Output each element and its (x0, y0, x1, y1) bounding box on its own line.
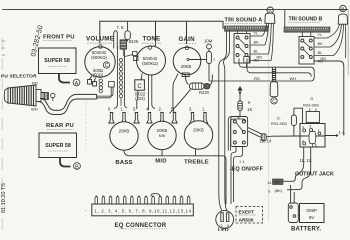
svg-text:(500KΩ): (500KΩ) (91, 55, 107, 60)
svg-text:822K: 822K (129, 39, 139, 44)
connector strip A (225, 26, 269, 31)
wire mid wiper tap (161, 150, 163, 156)
faint fold line (85, 101, 87, 150)
tick before EQ ON/OFF (230, 169, 232, 171)
wire strip B feed from border (284, 10, 286, 27)
svg-text:TRI SOUND A: TRI SOUND A (225, 18, 263, 24)
svg-text:R220: R220 (199, 90, 210, 95)
EQ connector body (92, 204, 194, 216)
wire RD from switch B to output jack (right side) (314, 61, 344, 137)
output jack box (300, 124, 325, 148)
lever of EQ switch (248, 128, 266, 141)
wire R220 diagonal to mid pin (170, 89, 191, 113)
svg-text:BK: BK (318, 41, 324, 46)
wire labels YL BK BL RD (tri sound B) (318, 32, 324, 64)
EQ connector pins (95, 196, 190, 204)
svg-text:(50Ω): (50Ω) (93, 73, 104, 78)
svg-text:20KB: 20KB (119, 129, 130, 134)
svg-text:MID: MID (155, 159, 166, 165)
wire gain wiper to 10M (189, 59, 206, 61)
wire jack to battery (RD) (284, 163, 304, 203)
wire bass wiper bus to LED column (124, 151, 226, 205)
wire jack to battery (BK) (287, 163, 311, 203)
tone left lugs (133, 52, 139, 61)
svg-text:D: D (311, 97, 314, 101)
svg-text:GAIN: GAIN (179, 36, 196, 43)
node C (volume tap mark) (103, 62, 109, 69)
svg-text:TREBLE: TREBLE (184, 160, 209, 166)
svg-text:3.: 3. (189, 107, 193, 112)
wire tone bottom leads (149, 75, 156, 110)
potentiometer MID 20KB (148, 121, 176, 149)
battery clip (288, 203, 299, 223)
switch PU selector body (4, 85, 44, 106)
svg-text:B: B (341, 7, 344, 13)
EQ connector pin tips (95, 196, 189, 198)
wire labels YL BK BL RD (tri sound A) (254, 31, 260, 63)
svg-text:LED: LED (218, 228, 229, 232)
wire bundle plug B (327, 24, 346, 58)
svg-text:AR500: AR500 (239, 218, 254, 224)
svg-text:B: B (75, 164, 79, 170)
svg-text:A: A (75, 81, 79, 87)
potentiometer TONE 504042 (500K) (137, 46, 166, 75)
svg-text:REAR PU: REAR PU (46, 123, 74, 129)
jack pin labels (302, 124, 321, 147)
battery 006P 9V (300, 204, 325, 223)
svg-text:2.: 2. (309, 124, 312, 128)
svg-text:5.: 5. (315, 143, 318, 147)
gain bottom legs (173, 73, 189, 113)
label TONE (142, 36, 161, 44)
svg-text:1, 2, 3, 4, 5, 6, 7, 8, 9,10,1: 1, 2, 3, 4, 5, 6, 7, 8, 9,10,11,12,13,14 (95, 208, 192, 213)
svg-text:9.: 9. (268, 190, 271, 194)
svg-text:RD: RD (275, 180, 281, 184)
svg-text:5.: 5. (133, 107, 137, 112)
wires switch B to bundle (314, 38, 334, 56)
svg-text:20KB: 20KB (181, 64, 192, 69)
label TRI SOUND B (288, 17, 322, 23)
dashed box EXEPT AR500 (236, 207, 263, 224)
MID pot terminal posts (147, 113, 177, 124)
wire loop pin 7 (114, 31, 118, 49)
svg-text:EXEPT: EXEPT (239, 210, 255, 216)
border frame right (347, 10, 349, 75)
svg-text:2.: 2. (159, 107, 163, 112)
bead chain (twisted pair) under 822K (119, 58, 122, 106)
resistor R220 (below gain) (190, 75, 213, 90)
svg-text:1.: 1. (121, 107, 125, 112)
svg-text:YL: YL (254, 31, 260, 36)
plug B connector (338, 5, 347, 24)
LED (216, 211, 234, 229)
plug C connector (hanging) (270, 67, 278, 97)
node A (front pickup connector mark) (73, 79, 80, 87)
svg-text:EQ ON/OFF: EQ ON/OFF (232, 167, 264, 173)
svg-text:13.: 13. (267, 181, 272, 185)
svg-text:9V: 9V (309, 215, 316, 220)
plug A connector (265, 7, 275, 23)
svg-text:1 1.: 1 1. (239, 160, 245, 164)
tag RD (battery wire) (267, 179, 283, 185)
resistor 1K (above EQ switch) (238, 87, 243, 117)
svg-text:FRONT PU: FRONT PU (43, 35, 75, 41)
potentiometer TREBLE 20KB (184, 121, 212, 149)
component small tag (RD) (244, 57, 249, 68)
svg-text:81.10.20 TS: 81.10.20 TS (1, 183, 7, 213)
svg-text:D.: D. (277, 117, 281, 121)
jumper bracket over pins 9-10 (151, 194, 160, 197)
label EQ CONNECTOR (115, 223, 169, 229)
svg-text:7. 8.: 7. 8. (117, 25, 125, 30)
label REAR PU (46, 123, 74, 130)
svg-text:20KB: 20KB (193, 128, 204, 133)
svg-text:BL: BL (254, 49, 260, 54)
switch EQ ON/OFF box (231, 117, 248, 147)
svg-text:20KB: 20KB (157, 128, 168, 133)
svg-text:PU SELECTOR: PU SELECTOR (1, 74, 37, 80)
svg-text:BK: BK (254, 40, 260, 45)
wires below EQ switch (231, 147, 243, 205)
svg-text:TONE: TONE (143, 36, 161, 43)
svg-text:(BK): (BK) (275, 188, 283, 193)
capacitor 822K (banded electrolytic) (120, 40, 133, 56)
potentiometer BASS 20KB (110, 122, 138, 150)
terminal lug on selector (43, 93, 49, 100)
svg-text:3.: 3. (302, 125, 305, 129)
svg-text:11, 12.: 11, 12. (300, 158, 313, 163)
svg-text:C: C (105, 63, 109, 69)
TREBLE pot terminal posts (190, 113, 208, 124)
svg-text:BATTERY.: BATTERY. (291, 227, 321, 232)
wire top supply bus (100, 21, 225, 47)
label FRONT PU (43, 35, 75, 41)
svg-text:WH: WH (290, 76, 297, 81)
jack internal terminals (266, 129, 325, 148)
left edge ticks (2, 41, 5, 55)
label TRI SOUND A (225, 18, 263, 24)
wire strip A left down to LED pair (219, 31, 230, 211)
wires switch A to bundle (250, 36, 271, 61)
svg-text:5.: 5. (171, 107, 175, 112)
svg-text:BASS: BASS (115, 160, 132, 166)
capacitor C 0.022 (223) (135, 80, 146, 101)
wires arching over EQ switch (228, 117, 246, 151)
wire bundle plug A (263, 24, 274, 61)
svg-text:RD: RD (321, 56, 327, 61)
resistor 10M (vertical) (207, 44, 212, 81)
wire treble wiper tap (195, 149, 197, 156)
svg-text:EQ CONNECTOR: EQ CONNECTOR (115, 223, 167, 229)
faint fold line vertical (268, 10, 270, 222)
svg-text:SUPER 58: SUPER 58 (45, 143, 71, 149)
svg-text:SUPER 58: SUPER 58 (44, 58, 70, 64)
svg-text:WH: WH (31, 107, 38, 112)
svg-text:BL: BL (318, 50, 324, 55)
svg-text:C: C (137, 84, 142, 90)
svg-text:1.: 1. (202, 107, 206, 112)
svg-text:MIN: MIN (159, 134, 166, 138)
potentiometer GAIN 20KB (173, 46, 201, 75)
BASS pot terminal posts (109, 113, 139, 124)
svg-text:RD: RD (254, 76, 260, 81)
wire front PU cable hook (59, 74, 70, 83)
wire cable to volume right lug (97, 82, 115, 98)
svg-text:TRI SOUND B: TRI SOUND B (289, 17, 323, 23)
svg-text:(500KΩ): (500KΩ) (142, 61, 158, 66)
svg-text:4.: 4. (302, 139, 305, 143)
svg-text:6.: 6. (108, 107, 112, 112)
svg-text:1 4.: 1 4. (339, 130, 346, 135)
capacitor (pill) pin 8 (125, 21, 130, 41)
label VOLUME (86, 36, 116, 44)
svg-text:R03-3KB: R03-3KB (303, 103, 319, 108)
svg-text:YL: YL (318, 32, 324, 37)
node C (plug mark) (271, 98, 277, 105)
svg-text:1K: 1K (247, 107, 252, 112)
svg-text:RD: RD (257, 55, 263, 60)
wire 822K bundle down to EQ pins (114, 46, 127, 109)
small dot gain wiper (187, 58, 189, 60)
svg-text:10, 14: 10, 14 (260, 138, 272, 143)
connector strip B (284, 27, 330, 32)
tag BK (battery wire) (268, 188, 283, 194)
svg-text:006P: 006P (306, 208, 317, 213)
svg-text:': ' (85, 209, 86, 214)
border frame top (3, 9, 349, 11)
connector ribbon volume bottom (bead chain) (99, 79, 102, 93)
wires jack bottom leads (304, 147, 311, 163)
border frame left (1, 38, 3, 231)
node B (rear pickup connector mark) (74, 163, 81, 171)
ground symbol at selector (51, 93, 55, 101)
switch TRI SOUND A box (234, 31, 250, 63)
svg-text:10M: 10M (204, 39, 213, 44)
svg-text:R: R (248, 101, 251, 105)
svg-text:R03-3KB: R03-3KB (271, 121, 287, 126)
svg-text:1.: 1. (318, 129, 321, 133)
volume bottom lugs (88, 76, 97, 87)
label GAIN (179, 36, 197, 44)
wire tone to cap C (137, 74, 142, 110)
svg-text:VOLUME: VOLUME (86, 36, 114, 43)
pickup REAR PU (SUPER 58) (39, 133, 77, 158)
pickup FRONT PU (SUPER 58) (39, 48, 77, 74)
svg-text:RD: RD (32, 81, 38, 86)
switch TRI SOUND B box (299, 32, 314, 64)
potentiometer VOLUME 504042 (500K) (85, 45, 115, 78)
wire pair mid horizontals to switch B (209, 59, 314, 82)
wire rear PU cable hook (60, 158, 71, 167)
svg-text:C: C (272, 99, 276, 105)
resistor R03-3KB (left of jack, vertical) (291, 108, 302, 136)
wire selector to volume cable (shielded pair) (38, 94, 97, 114)
capacitor (above jack) (306, 109, 319, 124)
svg-text:4.: 4. (146, 107, 150, 112)
